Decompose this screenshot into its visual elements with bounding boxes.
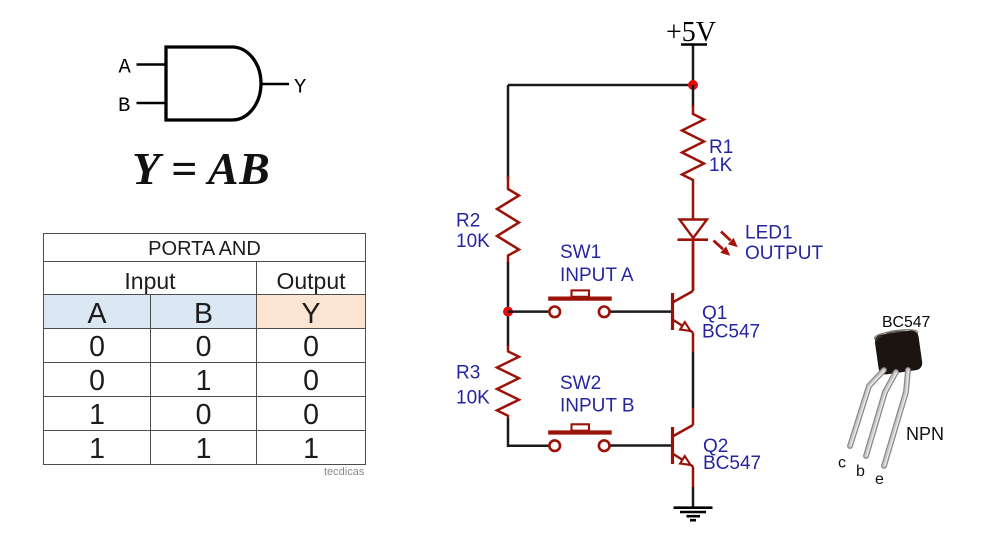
label SW1 INPUT A (560, 242, 634, 286)
svg-text:e: e (875, 471, 884, 488)
switch SW1 (548, 290, 612, 317)
svg-text:BC547: BC547 (882, 314, 930, 331)
svg-text:BC547: BC547 (703, 453, 761, 474)
svg-text:R2: R2 (456, 211, 480, 232)
svg-text:10K: 10K (456, 388, 490, 409)
truth table PORTA AND (43, 233, 366, 465)
label R1 value (709, 137, 733, 176)
wire R1 top lead (692, 85, 695, 107)
label Q1 BC547 (702, 303, 760, 343)
label SW2 INPUT B (560, 373, 635, 417)
svg-text:NPN: NPN (906, 424, 944, 444)
label R3 value (456, 363, 490, 409)
LED light arrows (714, 232, 738, 256)
transistor Q1 (673, 240, 694, 352)
label B (118, 95, 130, 118)
resistor R3 (497, 346, 519, 420)
svg-text:1K: 1K (709, 155, 733, 176)
power +5V label (666, 17, 716, 48)
transistor Q2 (673, 408, 694, 487)
resistor R2 (497, 176, 519, 263)
legs (850, 370, 909, 466)
svg-text:c: c (838, 455, 846, 472)
label LED1 OUTPUT (745, 223, 824, 265)
wire junction to SW1 (508, 310, 550, 313)
svg-text:LED1: LED1 (745, 223, 793, 244)
and-gate body (166, 47, 261, 120)
svg-text:SW1: SW1 (560, 242, 601, 263)
wire input A (137, 63, 166, 66)
switch SW2 (548, 424, 612, 451)
watermark tecdicas (324, 466, 364, 478)
svg-text:BC547: BC547 (702, 322, 760, 343)
wire +5V drop (692, 46, 695, 86)
svg-text:INPUT B: INPUT B (560, 396, 635, 417)
node junction left (503, 307, 513, 317)
ground (674, 508, 713, 521)
wire R2 to R3 (507, 262, 510, 347)
label A (119, 57, 132, 80)
AND gate logic symbol U-gate (0, 0, 330, 135)
transistor package BC547 TO-92 (838, 314, 944, 488)
svg-text:OUTPUT: OUTPUT (745, 243, 824, 264)
wire output Y (261, 83, 289, 86)
wire SW2 to Q2 base (611, 444, 672, 447)
svg-text:b: b (856, 463, 865, 480)
node junction top (688, 80, 698, 90)
wire SW1 to Q1 base (611, 310, 672, 313)
power rail bar (681, 43, 707, 46)
label Y (294, 77, 306, 100)
resistor R1 (682, 105, 704, 220)
svg-text:SW2: SW2 (560, 373, 601, 394)
wire R3 to SW2 (508, 419, 550, 446)
label R2 value (456, 211, 490, 253)
LED LED1 (678, 220, 709, 292)
wire Q2 emitter to ground (692, 487, 695, 508)
equation Y = AB (132, 142, 272, 195)
label Q2 BC547 (703, 436, 761, 474)
wire left rail upper (507, 85, 510, 179)
svg-text:10K: 10K (456, 231, 490, 252)
svg-text:R3: R3 (456, 363, 480, 384)
wire top rail (508, 84, 693, 87)
wire input B (137, 102, 166, 105)
svg-text:INPUT A: INPUT A (560, 265, 634, 286)
wire Q1 emitter to Q2 collector (692, 352, 695, 408)
